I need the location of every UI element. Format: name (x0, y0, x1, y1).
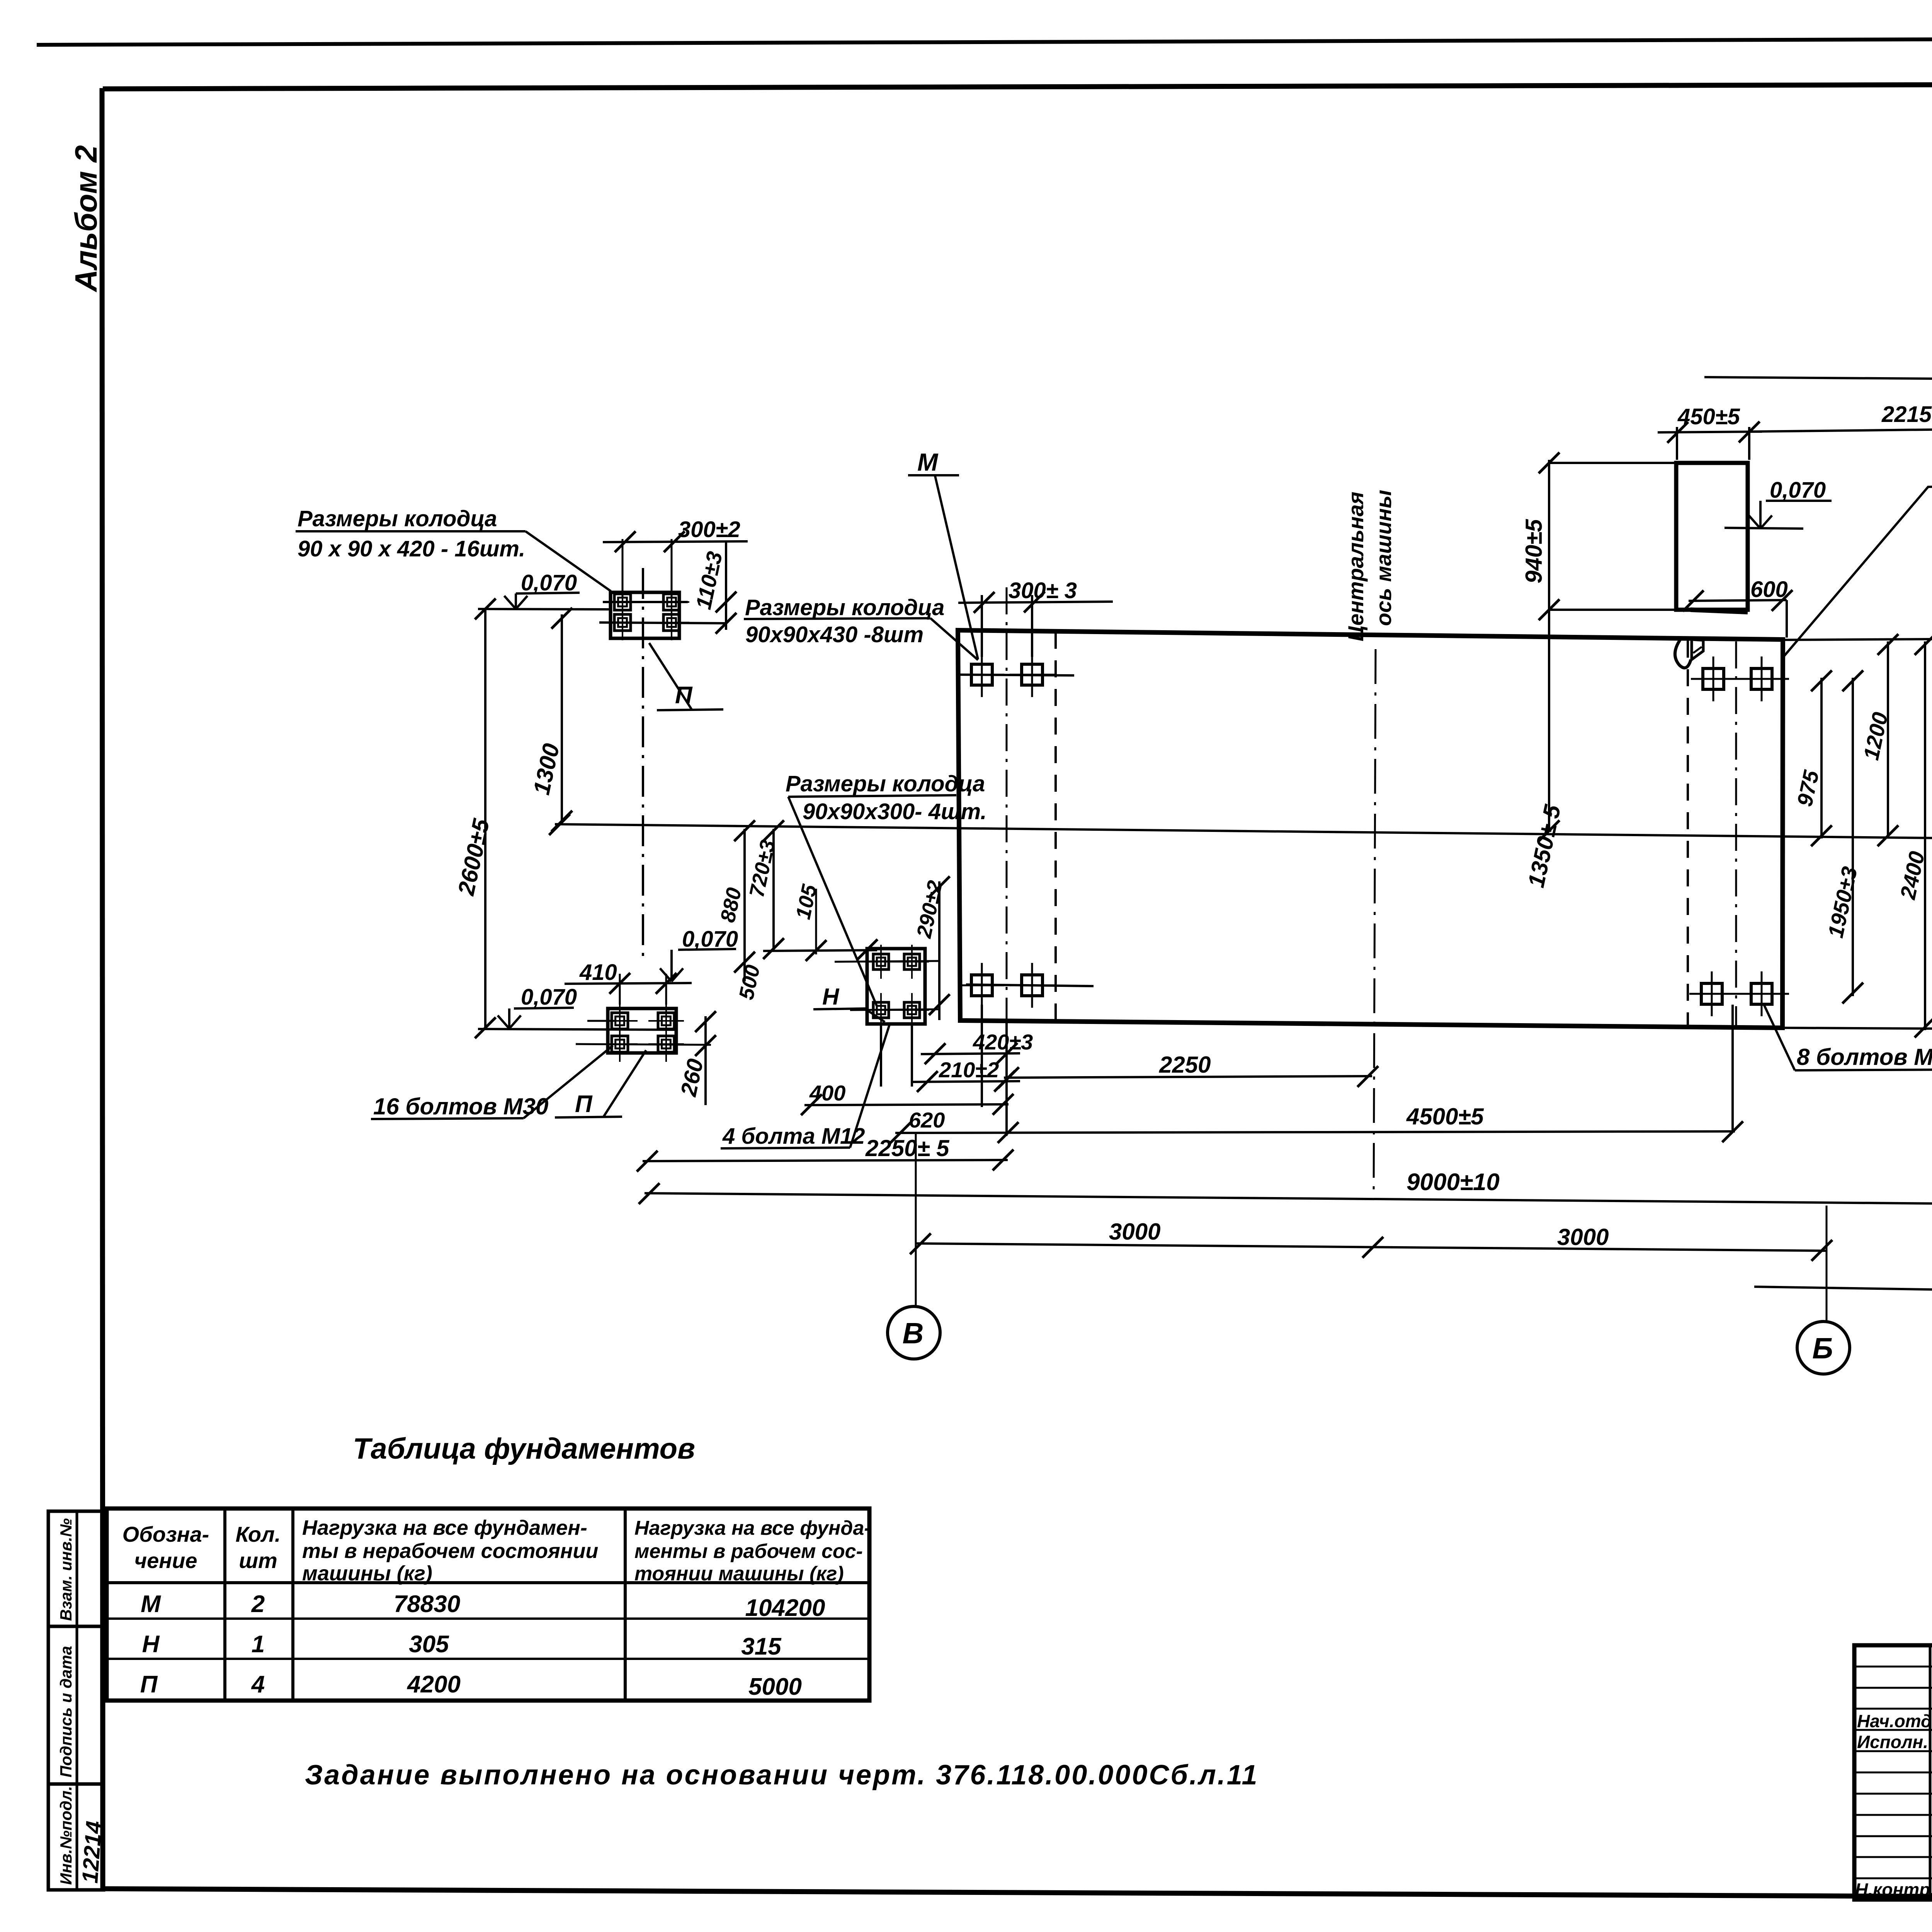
svg-text:шт: шт (239, 1548, 277, 1573)
svg-text:2: 2 (251, 1591, 265, 1617)
svg-text:4 болта М12: 4 болта М12 (722, 1124, 865, 1149)
svg-text:2215±5: 2215±5 (1881, 402, 1932, 427)
svg-text:3000: 3000 (1557, 1224, 1609, 1250)
svg-text:78830: 78830 (394, 1591, 460, 1617)
svg-text:4: 4 (251, 1671, 265, 1698)
svg-text:ось машины: ось машины (1371, 490, 1396, 626)
svg-text:16 болтов М30: 16 болтов М30 (373, 1094, 548, 1119)
svg-text:Центральная: Центральная (1344, 492, 1368, 641)
svg-text:Взам. инв.№: Взам. инв.№ (57, 1518, 75, 1621)
svg-text:Инв.№подл.: Инв.№подл. (57, 1786, 75, 1885)
svg-text:450±5: 450±5 (1677, 404, 1740, 429)
svg-text:Н.контр.: Н.контр. (1855, 1879, 1932, 1900)
svg-text:940±5: 940±5 (1521, 519, 1547, 583)
svg-text:1: 1 (252, 1631, 265, 1658)
svg-text:Нач.отд.: Нач.отд. (1857, 1711, 1932, 1731)
svg-text:Нагрузка на все фундамен-: Нагрузка на все фундамен- (302, 1516, 587, 1539)
svg-text:менты в рабочем сос-: менты в рабочем сос- (634, 1540, 863, 1563)
svg-text:Размеры колодца: Размеры колодца (298, 506, 497, 531)
svg-text:305: 305 (409, 1631, 449, 1658)
svg-text:Обозна-: Обозна- (122, 1522, 209, 1546)
svg-text:4200: 4200 (406, 1671, 461, 1698)
svg-text:600: 600 (1750, 577, 1788, 602)
svg-text:М: М (917, 448, 939, 476)
svg-text:315: 315 (741, 1633, 782, 1660)
svg-text:410: 410 (579, 960, 617, 985)
svg-text:90 х 90 х 420 - 16шт.: 90 х 90 х 420 - 16шт. (298, 536, 525, 561)
svg-text:Н: Н (142, 1631, 160, 1658)
svg-text:тоянии машины (кг): тоянии машины (кг) (634, 1563, 844, 1585)
svg-text:0,070: 0,070 (521, 570, 577, 595)
svg-text:210±2: 210±2 (939, 1058, 999, 1082)
svg-text:П: П (140, 1671, 158, 1698)
svg-text:90х90х430 -8шт: 90х90х430 -8шт (745, 622, 923, 647)
svg-text:3000: 3000 (1109, 1219, 1160, 1245)
svg-text:9000±10: 9000±10 (1406, 1169, 1500, 1196)
svg-text:0,070: 0,070 (521, 985, 577, 1010)
svg-text:104200: 104200 (745, 1595, 825, 1621)
svg-text:2250± 5: 2250± 5 (865, 1135, 950, 1161)
svg-text:Н: Н (822, 984, 840, 1010)
svg-text:300±2: 300±2 (678, 517, 740, 542)
svg-text:Размеры колодца: Размеры колодца (745, 595, 944, 620)
svg-text:В: В (903, 1317, 924, 1350)
svg-text:М: М (141, 1591, 161, 1617)
svg-text:Альбом 2: Альбом 2 (69, 145, 103, 293)
svg-text:300± 3: 300± 3 (1009, 578, 1077, 603)
svg-text:0,070: 0,070 (1770, 478, 1826, 503)
svg-text:Подпись и дата: Подпись и дата (57, 1646, 75, 1777)
svg-text:Задание выполнено на основа: Задание выполнено на основании черт. 376… (305, 1760, 1259, 1791)
svg-text:чение: чение (134, 1548, 197, 1573)
svg-text:400: 400 (809, 1081, 845, 1105)
svg-text:8 болтов М30: 8 болтов М30 (1797, 1044, 1932, 1070)
svg-text:Исполн.: Исполн. (1857, 1732, 1928, 1752)
svg-text:машины (кг): машины (кг) (302, 1562, 432, 1585)
svg-text:П: П (575, 1091, 593, 1117)
svg-text:Нагрузка на все фунда-: Нагрузка на все фунда- (634, 1517, 871, 1539)
svg-text:Б: Б (1812, 1332, 1833, 1365)
svg-text:5000: 5000 (748, 1673, 802, 1700)
svg-text:2250: 2250 (1159, 1052, 1211, 1078)
svg-text:12214: 12214 (77, 1820, 107, 1884)
svg-text:Таблица фундаментов: Таблица фундаментов (353, 1432, 695, 1465)
svg-text:Кол.: Кол. (236, 1522, 281, 1546)
svg-text:4500±5: 4500±5 (1406, 1104, 1484, 1129)
svg-text:90х90х300- 4шт.: 90х90х300- 4шт. (803, 799, 987, 824)
svg-text:620: 620 (909, 1108, 945, 1132)
svg-text:Размеры колодца: Размеры колодца (786, 771, 985, 796)
svg-text:ты в нерабочем состоянии: ты в нерабочем состоянии (302, 1539, 598, 1563)
